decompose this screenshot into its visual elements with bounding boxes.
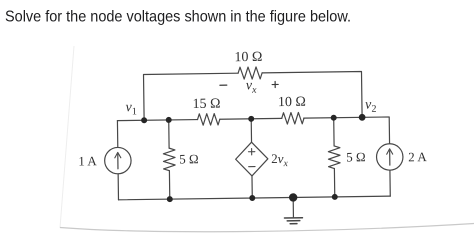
resistor R4 5 ohm (left) (163, 148, 175, 171)
wire: bottom wire (118, 196, 390, 200)
wire: middle wire right of 10 ohm to right rail (304, 117, 390, 145)
svg-text:10 Ω: 10 Ω (234, 50, 262, 65)
wire: top wire right segment (262, 72, 362, 119)
scan page left edge (60, 46, 74, 228)
svg-text:5 Ω: 5 Ω (179, 151, 199, 166)
wire: left rail bottom (117, 174, 119, 200)
node: dependent source bottom junction dot (249, 195, 255, 201)
node v1 junction dot (141, 117, 147, 123)
node: right 5 ohm top junction dot (331, 115, 337, 121)
resistor R5 5 ohm (right) (328, 146, 340, 169)
node: right 5 ohm bottom junction dot (332, 194, 338, 200)
svg-text:vx: vx (246, 78, 257, 96)
resistor R1 10 ohm (top) (238, 67, 262, 79)
node: left 5 ohm top junction dot (166, 117, 172, 123)
wire: left rail top (116, 121, 118, 148)
wire: dependent source riser (250, 119, 252, 142)
svg-text:Solve for the node voltages sh: Solve for the node voltages shown in the… (5, 9, 351, 26)
current source I2 2A circle (376, 144, 403, 171)
label minus sign of vx (220, 84, 227, 86)
wire: middle wire left of v1 (117, 120, 197, 121)
resistor R3 10 ohm (middle) (282, 112, 304, 124)
wire: right 5 ohm branch bottom (333, 169, 335, 197)
dependent source plus sign (248, 148, 254, 154)
svg-text:v1: v1 (125, 100, 136, 117)
svg-text:2 A: 2 A (408, 149, 427, 164)
ground node junction dot (289, 193, 298, 202)
current source I1 1A circle (104, 147, 131, 174)
wire: right rail bottom (389, 170, 391, 196)
scan page bottom edge curve (60, 224, 474, 232)
dependent source E1 2vx diamond (235, 142, 268, 176)
current source I2 arrow (389, 151, 391, 165)
resistor R2 15 ohm (197, 114, 219, 126)
ground (284, 197, 302, 223)
node: center junction dot above dependent source (248, 116, 254, 122)
svg-text:15 Ω: 15 Ω (192, 97, 220, 112)
wire: left 5 ohm branch bottom (168, 171, 170, 199)
wire: top wire left segment (144, 73, 239, 120)
svg-text:2vx: 2vx (271, 151, 289, 169)
wire: middle wire between 15 ohm and 10 ohm (220, 117, 282, 120)
wire: dependent source stem (251, 176, 253, 198)
svg-text:1 A: 1 A (78, 153, 97, 168)
node: left 5 ohm bottom junction dot (167, 196, 173, 202)
wire: right 5 ohm branch top (333, 118, 335, 146)
dependent source minus sign (249, 166, 255, 168)
node v2 junction dot (359, 114, 366, 121)
label plus sign of vx (272, 81, 278, 87)
svg-text:10 Ω: 10 Ω (278, 95, 306, 110)
wire: left 5 ohm branch top (168, 120, 170, 148)
svg-text:v2: v2 (365, 98, 376, 115)
svg-text:5 Ω: 5 Ω (346, 149, 366, 164)
current source I1 arrow (117, 154, 119, 168)
